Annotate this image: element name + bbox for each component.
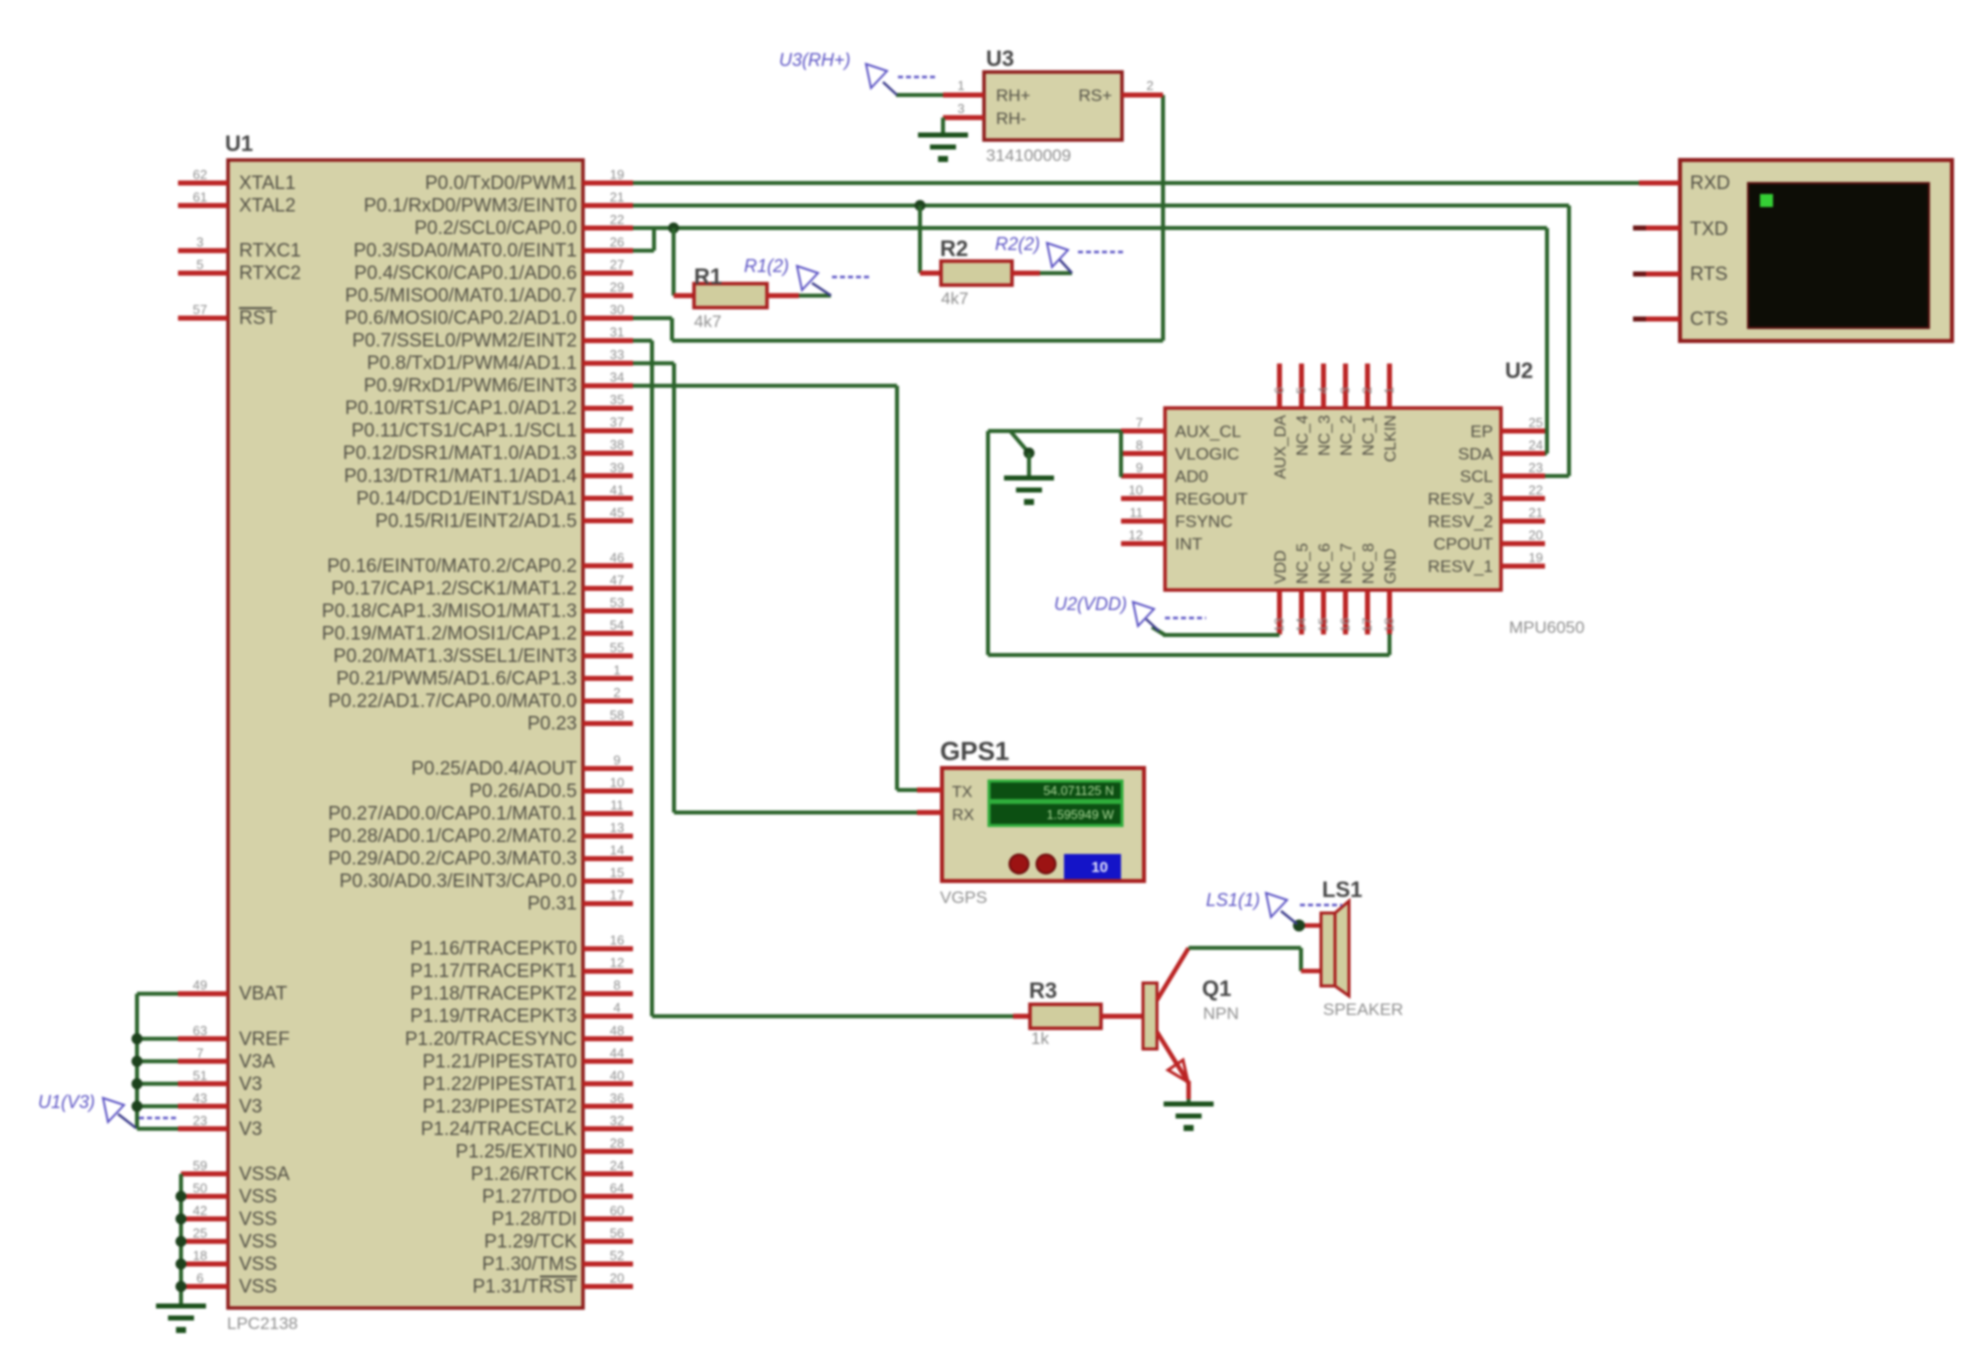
svg-text:VSS: VSS: [239, 1254, 277, 1275]
svg-text:FSYNC: FSYNC: [1175, 512, 1233, 531]
svg-text:VSS: VSS: [239, 1231, 277, 1252]
svg-text:RS+: RS+: [1078, 86, 1112, 105]
svg-text:5: 5: [196, 257, 203, 272]
svg-text:13: 13: [1272, 618, 1287, 632]
svg-text:NC_8: NC_8: [1361, 543, 1378, 584]
svg-text:P0.10/RTS1/CAP1.0/AD1.2: P0.10/RTS1/CAP1.0/AD1.2: [345, 398, 577, 419]
svg-text:RESV_2: RESV_2: [1428, 512, 1493, 531]
svg-text:62: 62: [193, 167, 207, 182]
svg-text:V3A: V3A: [239, 1051, 275, 1072]
svg-text:42: 42: [193, 1203, 207, 1218]
svg-text:20: 20: [610, 1271, 624, 1286]
svg-text:57: 57: [193, 302, 207, 317]
svg-text:13: 13: [610, 820, 624, 835]
svg-text:RESV_3: RESV_3: [1428, 490, 1493, 509]
svg-text:7: 7: [196, 1045, 203, 1060]
svg-text:54: 54: [610, 617, 624, 632]
wire Q1 emitter to ground: [1187, 1099, 1191, 1104]
svg-text:P1.18/TRACEPKT2: P1.18/TRACEPKT2: [410, 984, 577, 1005]
svg-text:21: 21: [1529, 505, 1543, 520]
svg-text:P0.26/AD0.5: P0.26/AD0.5: [469, 781, 577, 802]
svg-text:P0.25/AD0.4/AOUT: P0.25/AD0.4/AOUT: [411, 759, 577, 780]
terminal RTS pin stub (n.c.): [1633, 272, 1680, 277]
svg-text:P1.28/TDI: P1.28/TDI: [491, 1209, 577, 1230]
svg-text:11: 11: [610, 798, 624, 813]
svg-text:22: 22: [1529, 483, 1543, 498]
terminal label R2(2): [995, 234, 1126, 273]
svg-text:P0.2/SCL0/CAP0.0: P0.2/SCL0/CAP0.0: [414, 218, 577, 239]
svg-text:44: 44: [610, 1045, 624, 1060]
svg-text:CTS: CTS: [1690, 309, 1728, 330]
svg-text:11: 11: [1130, 505, 1144, 520]
svg-text:P1.19/TRACEPKT3: P1.19/TRACEPKT3: [410, 1006, 577, 1027]
svg-text:RESV_1: RESV_1: [1428, 557, 1493, 576]
svg-text:NC_4: NC_4: [1295, 415, 1312, 456]
svg-text:4: 4: [613, 1000, 620, 1015]
svg-text:GND: GND: [1383, 548, 1400, 584]
svg-text:SCL: SCL: [1460, 467, 1493, 486]
svg-text:26: 26: [610, 235, 624, 250]
svg-text:16: 16: [610, 933, 624, 948]
svg-text:1: 1: [613, 662, 620, 677]
svg-text:1k: 1k: [1031, 1029, 1049, 1048]
svg-text:15: 15: [610, 865, 624, 880]
svg-text:P0.17/CAP1.2/SCK1/MAT1.2: P0.17/CAP1.2/SCK1/MAT1.2: [331, 578, 577, 599]
svg-text:21: 21: [610, 190, 624, 205]
ground symbol below U3: [918, 135, 968, 162]
svg-text:5: 5: [1294, 387, 1309, 394]
svg-text:P0.16/EINT0/MAT0.2/CAP0.2: P0.16/EINT0/MAT0.2/CAP0.2: [327, 556, 577, 577]
svg-text:RH-: RH-: [996, 109, 1026, 128]
svg-text:16: 16: [1338, 618, 1353, 632]
svg-text:P0.13/DTR1/MAT1.1/AD1.4: P0.13/DTR1/MAT1.1/AD1.4: [344, 466, 577, 487]
svg-text:18: 18: [193, 1248, 207, 1263]
U2 top pin stubs with numbers: [1272, 364, 1397, 409]
svg-text:22: 22: [610, 212, 624, 227]
svg-text:37: 37: [610, 415, 624, 430]
svg-text:1: 1: [957, 78, 964, 93]
svg-text:P0.30/AD0.3/EINT3/CAP0.0: P0.30/AD0.3/EINT3/CAP0.0: [339, 871, 577, 892]
svg-text:3: 3: [196, 235, 203, 250]
svg-text:P0.11/CTS1/CAP1.1/SCL1: P0.11/CTS1/CAP1.1/SCL1: [351, 421, 577, 442]
svg-text:LPC2138: LPC2138: [227, 1314, 298, 1333]
wire P0.1 junction down to R2: [918, 206, 922, 274]
svg-text:P0.18/CAP1.3/MISO1/MAT1.3: P0.18/CAP1.3/MISO1/MAT1.3: [322, 601, 577, 622]
terminal CTS pin stub (n.c.): [1633, 317, 1680, 322]
svg-text:P0.31: P0.31: [527, 894, 577, 915]
svg-text:47: 47: [610, 572, 624, 587]
svg-text:3: 3: [957, 101, 964, 116]
svg-text:61: 61: [193, 190, 207, 205]
svg-text:U3(RH+): U3(RH+): [779, 50, 851, 70]
terminal label U1(V3): [38, 1092, 177, 1128]
GPS1 RX pin stub: [917, 810, 942, 815]
svg-text:VDD: VDD: [1273, 550, 1290, 584]
svg-text:58: 58: [610, 708, 624, 723]
svg-text:48: 48: [610, 1023, 624, 1038]
svg-text:15: 15: [1316, 618, 1331, 632]
svg-text:INT: INT: [1175, 535, 1202, 554]
svg-text:V3: V3: [239, 1096, 262, 1117]
terminal label U2(VDD): [1054, 594, 1206, 631]
svg-text:P0.28/AD0.1/CAP0.2/MAT0.2: P0.28/AD0.1/CAP0.2/MAT0.2: [328, 826, 577, 847]
svg-text:2: 2: [1360, 387, 1375, 394]
svg-text:55: 55: [610, 640, 624, 655]
junction node LS1 pin 1: [1293, 920, 1305, 932]
svg-text:9: 9: [613, 753, 620, 768]
svg-text:8: 8: [613, 978, 620, 993]
svg-text:P0.20/MAT1.3/SSEL1/EINT3: P0.20/MAT1.3/SSEL1/EINT3: [333, 646, 577, 667]
svg-text:P0.0/TxD0/PWM1: P0.0/TxD0/PWM1: [425, 173, 577, 194]
wire net P0.0 to terminal RXD: [633, 181, 1639, 185]
svg-text:P1.23/PIPESTAT2: P1.23/PIPESTAT2: [422, 1096, 577, 1117]
svg-text:P0.12/DSR1/MAT1.0/AD1.3: P0.12/DSR1/MAT1.0/AD1.3: [343, 443, 577, 464]
svg-text:53: 53: [610, 595, 624, 610]
svg-text:14: 14: [610, 843, 624, 858]
svg-text:35: 35: [610, 392, 624, 407]
GPS module GPS1 VGPS body: [940, 736, 1144, 907]
svg-text:8: 8: [1136, 438, 1143, 453]
wire R2 right lead to terminal R2(2): [1040, 271, 1072, 275]
terminal label R1(2): [744, 256, 872, 296]
svg-text:NC_7: NC_7: [1339, 543, 1356, 584]
wire net P0.6 to U3 RS+: [633, 95, 1163, 341]
wire net VSS bus to ground: [176, 1174, 187, 1306]
svg-text:24: 24: [610, 1158, 624, 1173]
svg-text:19: 19: [610, 167, 624, 182]
wire U3 RH- to ground: [941, 118, 945, 135]
svg-text:12: 12: [1129, 528, 1143, 543]
svg-text:28: 28: [610, 1135, 624, 1150]
svg-text:19: 19: [1529, 550, 1543, 565]
svg-text:P0.14/DCD1/EINT1/SDA1: P0.14/DCD1/EINT1/SDA1: [356, 488, 577, 509]
svg-text:43: 43: [193, 1090, 207, 1105]
svg-text:10: 10: [610, 775, 624, 790]
wire net V3 bus joining VBAT VREF V3A V3 pins with terminal U1(V3): [132, 994, 179, 1129]
svg-text:RX: RX: [952, 807, 975, 824]
svg-text:AUX_DA: AUX_DA: [1273, 415, 1290, 479]
svg-text:MPU6050: MPU6050: [1509, 618, 1585, 637]
svg-text:NC_2: NC_2: [1339, 415, 1356, 456]
resistor R2 4k7: [920, 236, 1040, 308]
svg-text:39: 39: [610, 460, 624, 475]
svg-text:U2: U2: [1505, 358, 1533, 383]
U1 right pin stubs with pin numbers and names: [322, 167, 633, 1298]
svg-text:4k7: 4k7: [941, 289, 968, 308]
U1 left pin stubs with pin numbers and names: [178, 167, 301, 1298]
svg-text:7: 7: [1136, 415, 1143, 430]
svg-text:LS1: LS1: [1322, 877, 1362, 902]
svg-text:P1.21/PIPESTAT0: P1.21/PIPESTAT0: [422, 1051, 577, 1072]
svg-text:V3: V3: [239, 1119, 262, 1140]
svg-text:29: 29: [610, 280, 624, 295]
svg-text:P0.6/MOSI0/CAP0.2/AD1.0: P0.6/MOSI0/CAP0.2/AD1.0: [345, 308, 577, 329]
svg-text:RTXC2: RTXC2: [239, 263, 301, 284]
svg-text:64: 64: [610, 1180, 624, 1195]
svg-text:17: 17: [1360, 618, 1375, 632]
terminal TXD pin stub (n.c.): [1633, 226, 1680, 231]
resistor R1 4k7: [674, 264, 799, 331]
svg-text:VSS: VSS: [239, 1186, 277, 1207]
svg-text:P0.3/SDA0/MAT0.0/EINT1: P0.3/SDA0/MAT0.0/EINT1: [353, 241, 577, 262]
svg-text:VSSA: VSSA: [239, 1164, 290, 1185]
svg-text:P0.29/AD0.2/CAP0.3/MAT0.3: P0.29/AD0.2/CAP0.3/MAT0.3: [328, 849, 577, 870]
svg-text:314100009: 314100009: [986, 146, 1071, 165]
ground symbol at U2 left: [1004, 478, 1054, 505]
svg-text:17: 17: [610, 888, 624, 903]
wire U3(RH+) terminal to pin 1: [896, 93, 943, 97]
svg-text:VSS: VSS: [239, 1209, 277, 1230]
U2 left pin stubs with numbers: [1121, 415, 1165, 544]
svg-text:50: 50: [193, 1180, 207, 1195]
wire Q1 collector to LS1 bottom pin: [1189, 948, 1301, 971]
svg-text:SPEAKER: SPEAKER: [1323, 1000, 1403, 1019]
resistor R3 1k: [1013, 978, 1143, 1048]
svg-text:25: 25: [1529, 415, 1543, 430]
svg-text:32: 32: [610, 1113, 624, 1128]
svg-text:4k7: 4k7: [694, 312, 721, 331]
U3 pin 3 RH- stub: [943, 101, 984, 118]
svg-text:49: 49: [193, 978, 207, 993]
svg-text:P1.25/EXTIN0: P1.25/EXTIN0: [456, 1141, 577, 1162]
svg-text:45: 45: [610, 505, 624, 520]
svg-text:R2(2): R2(2): [995, 234, 1040, 254]
svg-text:P0.5/MISO0/MAT0.1/AD0.7: P0.5/MISO0/MAT0.1/AD0.7: [345, 286, 577, 307]
svg-text:U1(V3): U1(V3): [38, 1092, 95, 1112]
svg-text:P0.7/SSEL0/PWM2/EINT2: P0.7/SSEL0/PWM2/EINT2: [352, 331, 577, 352]
svg-text:1.595949 W: 1.595949 W: [1047, 808, 1115, 822]
svg-text:P1.27/TDO: P1.27/TDO: [482, 1186, 577, 1207]
svg-text:9: 9: [1136, 460, 1143, 475]
svg-text:P1.26/RTCK: P1.26/RTCK: [471, 1164, 578, 1185]
virtual terminal instrument body: [1680, 160, 1952, 341]
svg-text:P0.21/PWM5/AD1.6/CAP1.3: P0.21/PWM5/AD1.6/CAP1.3: [336, 668, 577, 689]
svg-text:VREF: VREF: [239, 1029, 290, 1050]
svg-text:52: 52: [610, 1248, 624, 1263]
svg-text:REGOUT: REGOUT: [1175, 490, 1248, 509]
svg-text:51: 51: [193, 1068, 207, 1083]
wire net P0.1 to U2 SCL (down at x=1569) with junction to R2: [633, 200, 1569, 476]
svg-text:23: 23: [193, 1113, 207, 1128]
svg-text:P0.22/AD1.7/CAP0.0/MAT0.0: P0.22/AD1.7/CAP0.0/MAT0.0: [328, 691, 577, 712]
accelerometer U2 MPU6050 body: [1165, 358, 1585, 637]
svg-text:P0.15/RI1/EINT2/AD1.5: P0.15/RI1/EINT2/AD1.5: [375, 511, 577, 532]
svg-text:NC_3: NC_3: [1317, 415, 1334, 456]
svg-text:P1.22/PIPESTAT1: P1.22/PIPESTAT1: [422, 1074, 577, 1095]
speaker LS1: [1301, 877, 1403, 1019]
svg-text:56: 56: [610, 1225, 624, 1240]
svg-text:24: 24: [1529, 438, 1543, 453]
svg-text:NC_1: NC_1: [1361, 415, 1378, 456]
svg-text:P1.17/TRACEPKT1: P1.17/TRACEPKT1: [410, 961, 577, 982]
svg-text:10: 10: [1129, 483, 1143, 498]
svg-text:VBAT: VBAT: [239, 984, 288, 1005]
svg-text:33: 33: [610, 347, 624, 362]
svg-text:NC_6: NC_6: [1317, 543, 1334, 584]
svg-text:RST: RST: [239, 308, 277, 329]
svg-text:23: 23: [1529, 460, 1543, 475]
svg-text:14: 14: [1294, 618, 1309, 632]
svg-text:XTAL1: XTAL1: [239, 173, 296, 194]
svg-text:P1.29/TCK: P1.29/TCK: [484, 1231, 577, 1252]
svg-text:NC_5: NC_5: [1295, 543, 1312, 584]
svg-text:P1.16/TRACEPKT0: P1.16/TRACEPKT0: [410, 939, 577, 960]
terminal label U3(RH+): [779, 50, 938, 95]
svg-text:LS1(1): LS1(1): [1206, 890, 1260, 910]
svg-text:P0.27/AD0.0/CAP0.1/MAT0.1: P0.27/AD0.0/CAP0.1/MAT0.1: [328, 804, 577, 825]
svg-text:6: 6: [196, 1271, 203, 1286]
svg-text:R1(2): R1(2): [744, 256, 789, 276]
wire U2(VDD) terminal to VDD pin 13: [1152, 627, 1280, 635]
svg-text:38: 38: [610, 437, 624, 452]
svg-text:U1: U1: [225, 131, 253, 156]
svg-text:RXD: RXD: [1690, 173, 1730, 194]
svg-text:P1.30/TMS: P1.30/TMS: [482, 1254, 577, 1275]
wire R1 right lead to terminal R1(2): [799, 294, 831, 298]
svg-text:3: 3: [1338, 387, 1353, 394]
svg-text:TX: TX: [952, 784, 973, 801]
U3 pin 1 RH+ stub: [943, 78, 984, 95]
svg-text:1: 1: [1382, 387, 1397, 394]
transistor Q1 NPN: [1143, 948, 1239, 1099]
svg-text:59: 59: [193, 1158, 207, 1173]
svg-text:RTXC1: RTXC1: [239, 241, 301, 262]
wire U2 AUX_CL/VLOGIC/AD0 tie to ground: [988, 431, 1121, 478]
svg-text:P0.1/RxD0/PWM3/EINT0: P0.1/RxD0/PWM3/EINT0: [364, 196, 577, 217]
svg-text:54.071125 N: 54.071125 N: [1043, 784, 1114, 798]
ground symbol below VSS pins: [156, 1306, 206, 1333]
svg-text:34: 34: [610, 370, 624, 385]
wire branch junction down to R1 left lead: [672, 228, 676, 296]
svg-text:20: 20: [1529, 528, 1543, 543]
svg-text:Q1: Q1: [1202, 976, 1231, 1001]
microcontroller U1 LPC2138 body: [225, 131, 583, 1333]
svg-text:P1.20/TRACESYNC: P1.20/TRACESYNC: [405, 1029, 577, 1050]
svg-text:30: 30: [610, 302, 624, 317]
svg-text:R2: R2: [940, 236, 968, 261]
svg-text:TXD: TXD: [1690, 219, 1728, 240]
svg-text:NPN: NPN: [1203, 1004, 1239, 1023]
svg-text:U3: U3: [986, 46, 1014, 71]
wire net P0.3 joins P0.2 net: [633, 228, 654, 251]
svg-text:SDA: SDA: [1458, 445, 1494, 464]
svg-text:4: 4: [1316, 387, 1331, 394]
svg-text:V3: V3: [239, 1074, 262, 1095]
svg-text:10: 10: [1091, 859, 1108, 876]
svg-text:AUX_CL: AUX_CL: [1175, 422, 1241, 441]
terminal label LS1(1): [1206, 890, 1342, 924]
svg-text:P1.31/TRST: P1.31/TRST: [472, 1277, 577, 1298]
svg-text:EP: EP: [1470, 422, 1493, 441]
svg-text:41: 41: [610, 482, 624, 497]
svg-text:GPS1: GPS1: [940, 736, 1009, 766]
svg-text:27: 27: [610, 257, 624, 272]
wire net P0.8 to GPS1 RX: [633, 363, 917, 812]
svg-text:63: 63: [193, 1023, 207, 1038]
svg-text:P0.8/TxD1/PWM4/AD1.1: P0.8/TxD1/PWM4/AD1.1: [367, 353, 577, 374]
svg-text:36: 36: [610, 1090, 624, 1105]
wire net P0.7 down to R3: [633, 341, 1013, 1017]
svg-text:46: 46: [610, 550, 624, 565]
svg-text:CLKIN: CLKIN: [1383, 415, 1400, 462]
svg-text:60: 60: [610, 1203, 624, 1218]
ground symbol at Q1 emitter: [1164, 1104, 1214, 1131]
svg-text:P0.23: P0.23: [527, 714, 577, 735]
svg-text:P0.4/SCK0/CAP0.1/AD0.6: P0.4/SCK0/CAP0.1/AD0.6: [354, 263, 577, 284]
svg-text:R1: R1: [694, 264, 722, 289]
U2 bottom pin stubs with numbers: [1272, 590, 1397, 635]
humidity sensor U3 314100009 body: [984, 46, 1122, 165]
svg-text:2: 2: [613, 685, 620, 700]
svg-text:AD0: AD0: [1175, 467, 1208, 486]
svg-text:R3: R3: [1029, 978, 1057, 1003]
svg-text:P1.24/TRACECLK: P1.24/TRACECLK: [421, 1119, 578, 1140]
svg-text:VSS: VSS: [239, 1277, 277, 1298]
svg-text:12: 12: [610, 955, 624, 970]
U2 right pin stubs with numbers: [1501, 415, 1545, 566]
svg-text:6: 6: [1272, 387, 1287, 394]
svg-text:P0.9/RxD1/PWM6/EINT3: P0.9/RxD1/PWM6/EINT3: [364, 376, 577, 397]
U3 pin 2 RS+ stub: [1122, 78, 1163, 95]
svg-text:XTAL2: XTAL2: [239, 196, 296, 217]
svg-text:U2(VDD): U2(VDD): [1054, 594, 1127, 614]
svg-text:25: 25: [193, 1225, 207, 1240]
svg-text:RTS: RTS: [1690, 264, 1728, 285]
svg-text:2: 2: [1146, 78, 1153, 93]
wire ground net down-around to U2 GND pin 18: [988, 431, 1390, 655]
svg-text:18: 18: [1382, 618, 1397, 632]
svg-text:VLOGIC: VLOGIC: [1175, 445, 1239, 464]
svg-text:CPOUT: CPOUT: [1434, 535, 1494, 554]
wire net P0.2 to U2 SDA (down at x=1547): [633, 228, 1547, 454]
svg-text:40: 40: [610, 1068, 624, 1083]
svg-text:P0.19/MAT1.2/MOSI1/CAP1.2: P0.19/MAT1.2/MOSI1/CAP1.2: [322, 623, 577, 644]
terminal RXD pin stub: [1639, 181, 1680, 186]
svg-text:RH+: RH+: [996, 86, 1031, 105]
junction node P0.2/R1: [668, 223, 679, 234]
svg-text:VGPS: VGPS: [940, 888, 987, 907]
svg-text:31: 31: [610, 325, 624, 340]
GPS1 TX pin stub: [917, 788, 942, 793]
wire net P0.9 to GPS1 TX: [633, 386, 917, 790]
